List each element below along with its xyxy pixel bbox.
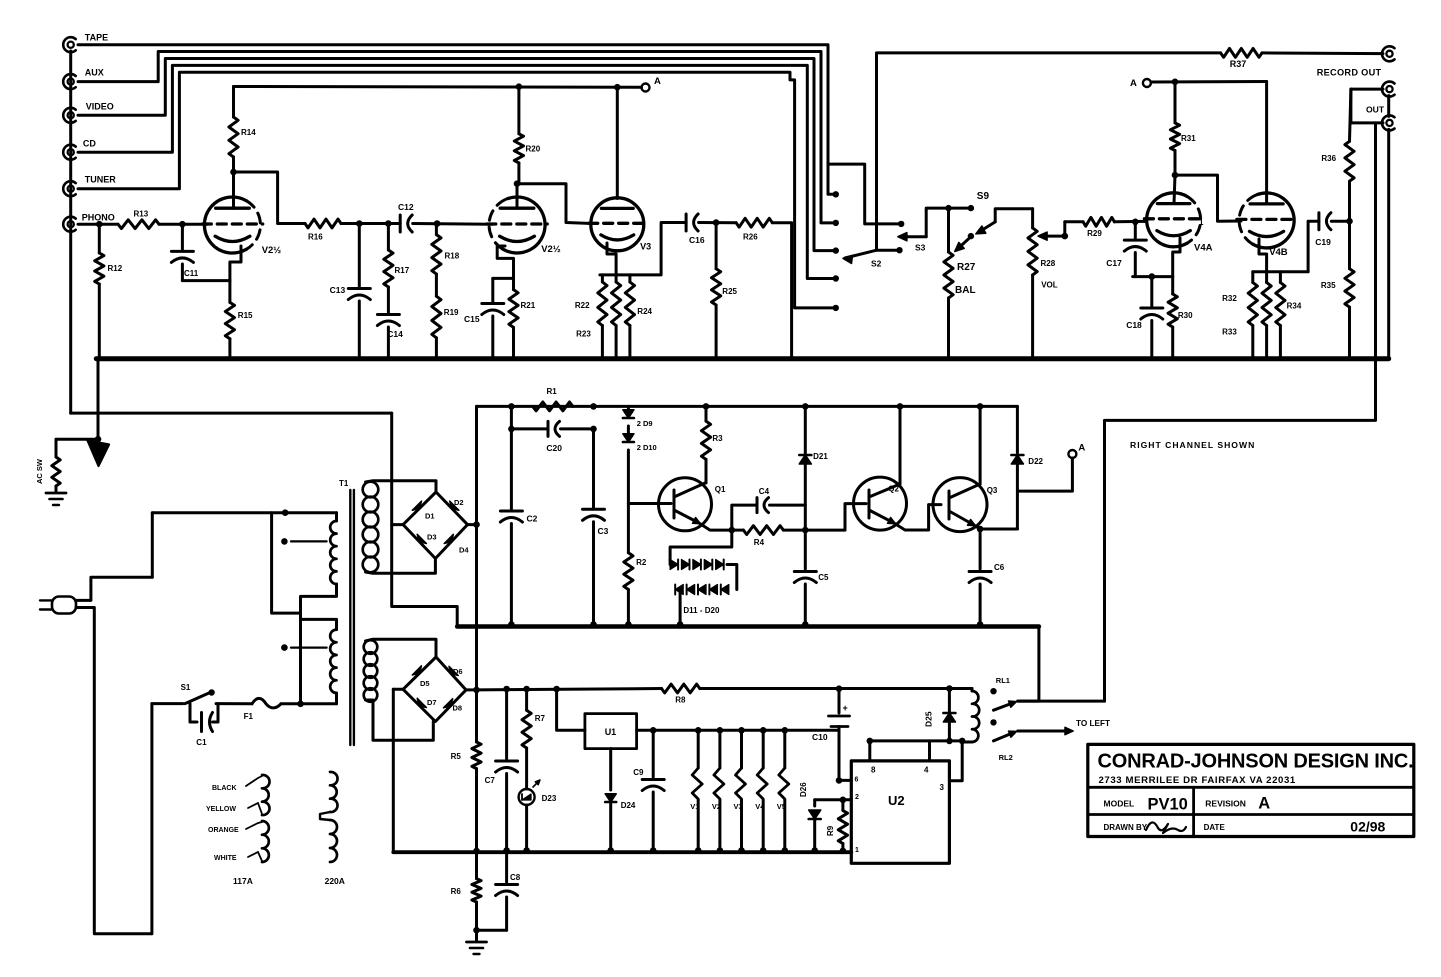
capacitor C16 [685,214,688,231]
resistor R19 [435,274,438,296]
svg-text:TAPE: TAPE [85,33,108,43]
wire R16 to C12 [341,222,400,225]
wire cathode junction C15/R21 [493,277,514,280]
svg-text:V5: V5 [777,802,786,811]
wire bridge2 DC- to heater return rail [393,688,403,691]
resistor R31 [1174,82,1177,123]
input jack VIDEO [68,112,74,118]
resistor R17 [387,224,390,251]
wire common rail to relay RL1 [1018,627,1039,702]
svg-text:T1: T1 [339,479,349,488]
svg-text:TO LEFT: TO LEFT [1076,719,1110,728]
output jack RECORD OUT [1386,51,1392,57]
resistor R29 [1065,220,1083,223]
heater raw rail [477,689,662,690]
node A terminal (right) [1143,79,1151,87]
svg-text:R13: R13 [134,210,149,219]
wire bridge1 DC- to ground line [392,523,403,526]
svg-text:RIGHT CHANNEL SHOWN: RIGHT CHANNEL SHOWN [1130,440,1255,450]
capacitor C10 [836,685,843,692]
capacitor C7 [503,686,510,693]
svg-text:R23: R23 [576,330,591,339]
resistor R25 [715,223,718,269]
resistor R12 [98,224,101,253]
svg-text:U1: U1 [605,727,617,737]
capacitor C17 [1134,222,1137,239]
wire TAPE monitor branch to S2 [828,164,901,224]
svg-text:R7: R7 [535,714,546,723]
diode D21 [802,403,809,410]
svg-text:WHITE: WHITE [214,855,237,862]
capacitor C2 [508,403,515,410]
svg-text:CONRAD-JOHNSON DESIGN INC.: CONRAD-JOHNSON DESIGN INC. [1098,751,1414,773]
svg-text:1: 1 [1199,218,1204,227]
input jack PHONO [68,221,74,227]
capacitor C6 [979,529,982,569]
svg-text:V4B: V4B [1269,247,1288,258]
wire V2B cathode lead [497,246,513,278]
capacitor C1 [190,704,197,722]
svg-text:220A: 220A [325,876,345,886]
wire TAPE bus line [78,45,836,195]
wire U2 pin 3 to coil [949,741,962,781]
resistor R20 [517,87,520,134]
svg-text:D22: D22 [1028,457,1043,466]
wire V4B cathode resistor bar [1253,270,1308,273]
svg-text:6: 6 [855,777,859,784]
triode V2B [503,197,545,253]
diode D25 [946,685,953,692]
svg-text:C8: C8 [510,873,521,882]
wire F1 to primary [281,702,337,705]
svg-text:V2½: V2½ [262,245,282,256]
svg-text:REVISION: REVISION [1205,799,1246,809]
svg-text:D2: D2 [454,498,464,507]
wire plug hot lead [76,577,152,600]
svg-text:R2: R2 [636,558,647,567]
svg-text:Q3: Q3 [987,486,998,495]
capacitor C18 [1150,277,1153,306]
wire jack ground vertical (inner) to PS [1105,123,1376,701]
chassis arrow symbol [88,441,110,467]
wire AUX bus line [78,52,836,223]
resistor R5 [475,690,478,742]
tube heaters V1-V5 [695,727,702,734]
capacitor C13 [358,224,361,287]
diode D22 [1016,406,1019,453]
wire V4B cathode to C19 [1308,221,1319,272]
svg-text:Q1: Q1 [715,485,726,494]
wire V3 plate lead [616,87,619,198]
wire secondary lower to bridge2 [366,639,437,657]
svg-text:R31: R31 [1181,134,1196,143]
capacitor C4 branch [732,505,757,530]
diode D26 [813,800,816,806]
svg-text:R25: R25 [722,287,737,296]
wire C17 bottom to cathode [1133,275,1173,278]
primary mid tap 1 [281,538,288,545]
svg-text:D11 - D20: D11 - D20 [683,606,720,615]
wire secondary upper to bridge1 [366,481,437,492]
svg-text:V3: V3 [640,242,651,252]
capacitor C9 [650,727,657,734]
wire PHONO to R13 [78,223,118,226]
relay RL2 contact [990,719,996,725]
wire U1 input [553,686,560,693]
wire V2B plate lead [516,184,519,209]
potentiometer R27 BAL [947,208,950,252]
svg-text:R18: R18 [445,252,460,261]
svg-text:V3: V3 [734,802,743,811]
svg-text:S2: S2 [871,259,882,269]
wire VIDEO bus line [78,59,836,251]
wire V3 cathode to C16 [631,223,686,275]
resistor R14 [232,87,235,118]
node A terminal (left) [642,84,650,92]
svg-text:R22: R22 [575,301,590,310]
diode string D11-D20 [670,530,732,560]
wire Q3 emitter output [976,526,1018,529]
T1 primary upper winding [330,521,336,584]
wire U1 output rail [637,729,839,732]
title block frame [1088,744,1414,836]
capacitor C19 [1317,213,1320,230]
svg-text:YELLOW: YELLOW [206,806,236,813]
resistor R35 [1348,221,1351,269]
svg-text:R4: R4 [754,538,765,547]
svg-text:R37: R37 [1230,59,1247,69]
transistor Q3 [933,478,987,532]
svg-text:D26: D26 [799,782,808,797]
switch S3 wiper [898,233,907,241]
svg-text:C1: C1 [196,738,207,747]
wire R29 to V4A grid [1114,220,1146,223]
potentiometer R27 BAL wiper arrow [958,237,971,249]
svg-text:D3: D3 [427,533,437,542]
resistor R15 [228,281,231,303]
svg-text:R3: R3 [712,434,723,443]
svg-text:PHONO: PHONO [82,212,115,222]
B+ rail [477,405,1018,408]
svg-text:8: 8 [871,766,876,775]
svg-text:R33: R33 [1222,328,1237,337]
wire R37 to RECORD OUT jack [1262,51,1383,55]
wire TO LEFT [1018,730,1069,733]
svg-text:R21: R21 [521,301,536,310]
svg-text:R14: R14 [241,128,256,137]
resistor R7 [523,686,530,693]
resistor R21 [512,278,515,289]
wire Q1 base [628,502,671,505]
svg-text:117A: 117A [233,876,253,886]
svg-text:R19: R19 [444,308,459,317]
wire Q3 collector [977,403,984,410]
svg-text:F1: F1 [244,712,254,721]
svg-text:C12: C12 [398,202,414,212]
svg-text:2 D9: 2 D9 [637,419,653,428]
svg-text:A: A [1078,443,1085,454]
output jack (lower OUT) [1386,120,1392,126]
svg-text:PV10: PV10 [1148,796,1188,814]
T1 primary lower winding [330,630,336,693]
resistor R22 [601,275,604,282]
input jack TAPE [68,42,74,48]
svg-text:D24: D24 [621,801,636,810]
capacitor C5 [804,530,807,569]
wire Q2 emitter to Q3 base [896,505,942,530]
resistor R3 [703,403,710,410]
resistor R34 [1279,272,1282,283]
wire S1 to fuse [216,702,252,705]
svg-text:C18: C18 [1126,320,1142,330]
svg-text:BLACK: BLACK [212,785,237,792]
svg-text:C7: C7 [485,776,496,785]
wire C10 to U2 pin 6 [836,777,843,784]
wire bridge1 DC+ to B+ rail [468,523,477,526]
wire V4A plate to V4B grid [1175,175,1241,221]
wire C16 to R26 [699,221,737,224]
svg-text:R9: R9 [826,825,835,836]
wire V3 cathode resistor bar [600,273,631,276]
resistor AC SW [55,439,58,457]
svg-text:R28: R28 [1041,259,1056,268]
wire switch S1 feed vertical [150,704,153,934]
svg-text:S3: S3 [915,243,926,253]
input jack TUNER [68,186,74,192]
svg-text:RL1: RL1 [996,676,1010,685]
svg-text:R20: R20 [526,145,541,154]
resistor R24 [628,275,631,282]
svg-text:D5: D5 [420,679,430,688]
LED D23 [519,789,535,805]
svg-text:C16: C16 [689,235,705,245]
svg-text:2 D10: 2 D10 [637,443,657,452]
wire CD bus line [78,65,836,278]
input jack CD [68,149,74,155]
regulator U1 [585,714,637,749]
node A line (left) [234,85,642,89]
wire V4A plate lead [1174,175,1175,203]
diodes D9 D10 [627,406,630,417]
svg-text:R1: R1 [547,387,558,396]
triode V4A [1147,193,1187,247]
svg-text:A: A [1258,795,1270,813]
resistor R26 [736,218,772,227]
wire TUNER bus line [78,72,836,308]
svg-text:VIDEO: VIDEO [86,102,114,112]
wire Q2 collector [897,403,904,410]
svg-text:C10: C10 [812,732,828,742]
svg-text:V4A: V4A [1194,243,1213,254]
svg-text:R6: R6 [451,887,462,896]
wire arrow junction to AC SW resistor [56,438,98,441]
svg-text:BAL: BAL [955,285,976,296]
capacitor C15 [491,278,494,301]
svg-text:A: A [654,76,661,87]
svg-text:C6: C6 [994,563,1005,572]
wire R13 to V2A grid [159,223,207,226]
capacitor C14 [387,287,390,313]
wire U2 pin 2 [815,798,852,801]
svg-text:C2: C2 [527,514,538,524]
bridge rectifier D5-D8 [403,657,466,722]
wire input jack chain vertical [69,51,72,413]
svg-text:4: 4 [924,766,929,775]
resistor R33 [1265,272,1268,283]
svg-text:MODEL: MODEL [1104,799,1135,809]
wire output to OUT jacks [1351,88,1383,91]
wire C12 to V2B grid [413,222,492,226]
svg-text:D25: D25 [923,711,933,727]
bridge rectifier D1-D4 [403,492,467,559]
svg-text:C13: C13 [330,285,346,295]
svg-text:R24: R24 [637,307,652,316]
T1 secondary lower winding [364,640,378,654]
svg-text:D7: D7 [427,698,437,707]
svg-text:V1: V1 [690,802,699,811]
AC plug [52,597,76,614]
IC U2 [851,761,949,863]
wire V2B plate junction to V3 grid [517,184,592,224]
svg-text:RL2: RL2 [999,753,1013,762]
ground symbol (AC SW) [46,492,66,495]
heater return rail [393,850,851,854]
svg-text:2733 MERRILEE DR FAIRFAX VA 22: 2733 MERRILEE DR FAIRFAX VA 22031 [1099,775,1296,786]
diode D24 [609,749,612,790]
svg-text:CD: CD [83,138,96,148]
input jack AUX [68,79,74,85]
resistor R23 [615,275,618,282]
T1 secondary upper winding [363,482,379,498]
svg-text:TUNER: TUNER [85,175,116,185]
wire primary interconnect [272,513,301,613]
svg-text:C19: C19 [1315,237,1331,247]
svg-text:AC SW: AC SW [35,458,44,484]
svg-text:D4: D4 [459,546,469,555]
svg-text:R29: R29 [1087,229,1102,238]
svg-text:C11: C11 [184,269,199,278]
svg-text:V2½: V2½ [541,244,561,255]
resistor R6 [475,852,478,878]
switch S2 wiper [877,249,900,252]
output jack (upper OUT) [1386,86,1392,92]
wire Q1 emitter junction [701,524,732,530]
svg-text:D1: D1 [425,512,435,521]
relay RL1 common wire [1018,700,1105,703]
relay coil [972,691,979,742]
wire V2A plate to R16 [234,172,306,224]
resistor R18 [435,224,438,235]
svg-text:R12: R12 [108,264,123,273]
svg-text:C5: C5 [818,573,829,582]
wire record-out line with vertical to S2 wiper [877,53,1221,250]
switch S1 [152,702,183,705]
resistor R30 [1171,277,1174,294]
capacitor C11 [181,224,184,249]
svg-text:DATE: DATE [1204,823,1226,832]
svg-text:C3: C3 [598,526,609,536]
resistor R37 [1221,49,1262,58]
primary mid tap 2 [281,644,288,651]
svg-text:+: + [843,703,848,713]
resistor R16 [305,219,341,228]
wire signal ground down to common rail [392,413,458,626]
svg-text:R17: R17 [395,266,410,275]
node A terminal (PS) [1068,450,1076,458]
wire jack ground vertical (outer) [1387,96,1390,117]
svg-text:VOL: VOL [1041,281,1058,290]
ground symbol (bottom) [467,941,487,944]
wire V2A plate lead [232,172,235,208]
svg-text:C14: C14 [387,329,403,339]
resistor R9 [840,797,847,804]
svg-text:D8: D8 [453,704,463,713]
svg-text:R30: R30 [1178,311,1193,320]
capacitor C20 branch [511,427,548,430]
svg-text:R15: R15 [238,311,253,320]
svg-text:R32: R32 [1222,294,1237,303]
svg-text:C20: C20 [546,443,562,453]
svg-text:R5: R5 [451,752,462,761]
capacitor C12 [399,215,402,232]
svg-text:DRAWN BY: DRAWN BY [1104,823,1148,832]
resistor R8 [662,684,700,693]
wire V4B cathode lead [1259,239,1267,272]
svg-text:S9: S9 [977,191,990,202]
resistor R2 [627,504,630,553]
svg-text:RECORD OUT: RECORD OUT [1317,67,1382,77]
svg-text:C15: C15 [464,314,480,324]
wire V4A cathode lead [1173,238,1180,277]
svg-text:A: A [1130,78,1137,89]
wire V3 cathode lead [607,243,616,275]
wire emitter node to node A [1017,458,1072,491]
svg-text:R27: R27 [957,262,976,273]
winding diagram 220V [330,772,338,812]
svg-text:D6: D6 [453,667,463,676]
wire primary top tap line [152,511,336,514]
ground bus [96,356,1388,361]
svg-text:C9: C9 [633,768,644,777]
svg-text:AUX: AUX [85,68,104,78]
svg-text:2: 2 [855,794,859,801]
wire bridge2 DC+ to heater rail [466,688,477,691]
svg-text:V4: V4 [755,802,765,811]
wire C19 to output node [1331,220,1349,223]
capacitor C3 [590,403,597,410]
common rail (thick) [457,624,1039,629]
wire U2 pins 8,4 to coil [870,739,962,742]
resistor R13 [118,220,159,229]
svg-text:R35: R35 [1321,281,1336,290]
resistor R36 [1348,181,1351,221]
relay RL1 contact [990,688,996,694]
svg-text:V2: V2 [712,802,721,811]
wire R26 to ground bus [772,223,791,359]
transformer T1 core [349,490,351,745]
transistor Q2 [854,477,907,530]
resistor R4 [732,529,744,532]
svg-text:3: 3 [940,783,945,792]
triode V4B [1253,193,1294,248]
wire V2A cathode lead [230,246,241,281]
svg-text:OUT: OUT [1366,105,1385,115]
potentiometer R28 VOL [1031,209,1034,228]
svg-text:R34: R34 [1287,302,1302,311]
svg-text:02/98: 02/98 [1350,819,1385,835]
svg-text:R16: R16 [308,233,323,242]
svg-text:R26: R26 [743,233,758,242]
